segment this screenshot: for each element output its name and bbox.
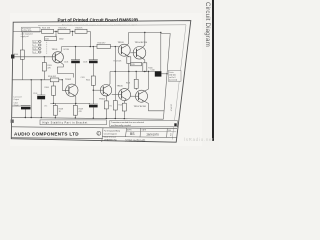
resistor R115 horizontal xyxy=(131,62,142,66)
node base feed dot xyxy=(44,56,45,57)
svg-text:R110 4K7: R110 4K7 xyxy=(98,42,106,44)
faint watermark xyxy=(184,137,214,142)
wire x31 drop xyxy=(30,80,32,118)
capacitor C110 output xyxy=(151,69,162,76)
svg-text:C106: C106 xyxy=(83,61,87,63)
resistor R116 vertical xyxy=(143,63,153,72)
capacitor C101 box xyxy=(45,37,57,41)
note box: fuse panel supply voltage xyxy=(22,27,41,32)
wire TR104 collector up xyxy=(142,33,145,49)
svg-text:TR101: TR101 xyxy=(52,49,59,51)
right margin: vertical caption xyxy=(204,2,211,47)
resistor R100 vertical xyxy=(14,50,24,59)
svg-text:1K5: 1K5 xyxy=(44,106,47,108)
drawing number row line xyxy=(102,136,177,137)
divider company/info xyxy=(102,128,103,142)
connector pin E1 xyxy=(33,40,41,43)
junction dots rail2 xyxy=(75,46,76,47)
capacitor C104 xyxy=(64,60,80,64)
resistor R106 vertical xyxy=(45,86,56,95)
wire xyxy=(12,106,25,118)
svg-text:R118: R118 xyxy=(126,83,130,85)
right margin: dark rule xyxy=(212,0,214,141)
transistor TR103 xyxy=(118,44,130,56)
connector pin E2 xyxy=(33,44,41,47)
resistor R121 vertical xyxy=(104,101,112,109)
wire TR102 collector up xyxy=(74,84,76,85)
connector pin E3 xyxy=(33,47,41,50)
wire TR103 collector up xyxy=(126,33,128,46)
svg-text:OUTPUT: OUTPUT xyxy=(170,104,172,112)
chain x41 with C103 xyxy=(40,80,42,118)
wire xyxy=(75,47,77,85)
wire drop to C101 xyxy=(56,31,73,36)
wire TR107 emitter out xyxy=(143,101,164,111)
connector pin E4 xyxy=(33,51,41,54)
wire TR104 base link xyxy=(130,52,136,54)
capacitor C103 xyxy=(33,93,45,100)
wire mid rail xyxy=(50,102,90,104)
resistor R109 vertical xyxy=(73,105,83,115)
svg-text:TR105: TR105 xyxy=(99,98,106,100)
svg-text:TR103: TR103 xyxy=(118,42,125,44)
wire TR105 emitter down to R121 xyxy=(106,95,108,118)
wire TR106 collector up xyxy=(126,72,128,91)
svg-text:R113 10K: R113 10K xyxy=(114,61,123,63)
wire TR106 emitter to R122 xyxy=(124,99,126,118)
resistor R101 xyxy=(42,28,54,34)
svg-text:C103: C103 xyxy=(33,93,37,95)
svg-text:R1: R1 xyxy=(110,105,112,107)
svg-text:28/X/1970: 28/X/1970 xyxy=(147,132,160,136)
svg-text:C105: C105 xyxy=(81,77,85,79)
copyright symbol xyxy=(97,131,101,135)
inner top border xyxy=(38,24,186,27)
wire base feed TR105 xyxy=(93,89,103,91)
resistor R104 xyxy=(48,76,59,82)
svg-text:2791/HD/HD: 2791/HD/HD xyxy=(125,138,146,142)
wire input to base xyxy=(12,56,55,58)
svg-text:AUDIO COMPONENTS LTD: AUDIO COMPONENTS LTD xyxy=(14,131,79,136)
svg-text:C110: C110 xyxy=(151,69,155,71)
wire long rail xyxy=(12,79,62,81)
transistor TR105 xyxy=(100,85,111,96)
svg-text:For Integrated Amp: For Integrated Amp xyxy=(104,129,120,132)
wire top right rail xyxy=(129,32,161,34)
svg-text:ISS: ISS xyxy=(168,130,171,132)
divider date/issue xyxy=(166,129,169,138)
svg-text:Circuit Diagram: Circuit Diagram xyxy=(104,132,117,135)
capacitor C108 xyxy=(89,104,98,107)
wire bottom rail xyxy=(12,117,164,119)
wire TR106 base feed xyxy=(112,94,122,96)
wire TR101 emitter down xyxy=(57,62,73,78)
svg-text:In 3: In 3 xyxy=(33,48,36,50)
svg-text:Transistors marked thus are se: Transistors marked thus are selected xyxy=(111,121,144,124)
transistor TR106 xyxy=(119,89,131,101)
svg-text:R100: R100 xyxy=(14,54,18,56)
svg-text:R112: R112 xyxy=(86,80,90,82)
outer sheet border xyxy=(11,21,191,143)
note box high stability xyxy=(40,120,107,125)
resistor R103 xyxy=(75,28,87,34)
svg-text:560Ω: 560Ω xyxy=(59,39,64,41)
svg-text:R106: R106 xyxy=(45,87,49,89)
wire slanted main output line xyxy=(161,34,170,120)
svg-text:TR106: TR106 xyxy=(117,86,124,88)
capacitor C102 xyxy=(21,105,31,109)
wire TR102 emitter down xyxy=(74,95,76,103)
svg-text:C104: C104 xyxy=(64,61,68,63)
wire cap to out xyxy=(161,73,167,75)
svg-text:(screened): (screened) xyxy=(169,78,178,81)
wire R106 bottom xyxy=(53,82,55,104)
wire x115 chain xyxy=(114,47,116,118)
transistor TR107 xyxy=(136,90,148,102)
svg-text:R103 1K: R103 1K xyxy=(76,28,84,30)
wire top rail xyxy=(13,30,90,32)
svg-text:In 4: In 4 xyxy=(33,52,36,54)
paper background xyxy=(0,0,219,150)
transistor TR101 xyxy=(52,52,63,63)
node xyxy=(53,103,54,104)
svg-text:Issue 2 Circuit: Issue 2 Circuit xyxy=(104,135,116,138)
svg-text:TR104 BC214: TR104 BC214 xyxy=(135,42,149,44)
svg-text:R104 8K2: R104 8K2 xyxy=(48,76,56,78)
wire to R105 xyxy=(43,57,45,80)
svg-text:Part of Printed Circuit Board: Part of Printed Circuit Board BM852/B xyxy=(58,17,139,22)
svg-text:TR107 BC301: TR107 BC301 xyxy=(134,106,148,108)
wire resistor bottoms xyxy=(55,103,75,117)
wire rail2 xyxy=(62,46,120,48)
note box output xyxy=(168,71,181,82)
capacitor C106 xyxy=(83,60,98,64)
svg-text:Output: Output xyxy=(14,98,20,101)
svg-text:supply rail: supply rail xyxy=(21,36,30,38)
resistor R108 vertical xyxy=(53,105,63,115)
resistor R118 vertical xyxy=(126,72,138,91)
resistor R122 vertical xyxy=(122,103,126,111)
wire left drop xyxy=(21,32,23,80)
wire rail1 to rail2 xyxy=(89,31,91,46)
svg-text:R101 1K8: R101 1K8 xyxy=(42,28,50,30)
wire TR105 collector up xyxy=(108,72,110,86)
margin marks on left border xyxy=(11,55,14,59)
note box transistors xyxy=(110,120,178,126)
inner right border xyxy=(172,25,186,140)
svg-text:C101: C101 xyxy=(45,39,49,41)
svg-text:470: 470 xyxy=(79,111,82,113)
svg-text:TR102: TR102 xyxy=(65,79,72,81)
wire xyxy=(92,47,94,118)
resistor R102 xyxy=(58,28,70,34)
junction dots on top rail xyxy=(55,31,56,32)
resistor R105 vertical xyxy=(42,63,51,72)
divider info/appd xyxy=(126,128,127,137)
svg-text:In 1: In 1 xyxy=(33,41,36,43)
transistor TR102 xyxy=(66,84,78,96)
svg-text:R102 2K2: R102 2K2 xyxy=(59,28,67,30)
svg-text:Supply Volts: Supply Volts xyxy=(22,29,31,32)
screen dashed line xyxy=(46,40,48,54)
title block top line xyxy=(12,127,177,129)
wire TR107 base feed xyxy=(131,95,139,97)
wire TR101 collector up xyxy=(60,47,62,54)
wire bus xyxy=(110,71,155,73)
wire TR107 collector up xyxy=(143,72,148,92)
svg-text:All voltages measured with res: All voltages measured with respect to ch… xyxy=(62,23,137,26)
node feedback xyxy=(62,79,63,80)
svg-text:High Stability Part in Bracket: High Stability Part in Bracket xyxy=(43,122,88,125)
title block left bottom line xyxy=(11,137,102,140)
resistor R120 vertical xyxy=(113,101,122,110)
svg-text:DRAWING No: DRAWING No xyxy=(104,139,118,142)
transistor TR104 xyxy=(133,47,146,60)
svg-text:R115: R115 xyxy=(131,64,135,66)
resistor R110 xyxy=(97,42,110,48)
header row line xyxy=(127,130,177,133)
svg-text:BS: BS xyxy=(130,132,135,136)
wire TR104 emitter chain xyxy=(142,58,145,72)
svg-text:In 2: In 2 xyxy=(33,45,36,47)
svg-text:and thermally coupled: and thermally coupled xyxy=(111,124,131,127)
wire TR103 emitter chain xyxy=(126,55,129,72)
wire to TR102 base xyxy=(62,80,69,91)
resistor R112 vertical xyxy=(86,76,95,85)
divider appd/date xyxy=(139,128,142,137)
resistor R113 vertical xyxy=(114,57,131,64)
svg-text:BC184: BC184 xyxy=(64,49,70,51)
